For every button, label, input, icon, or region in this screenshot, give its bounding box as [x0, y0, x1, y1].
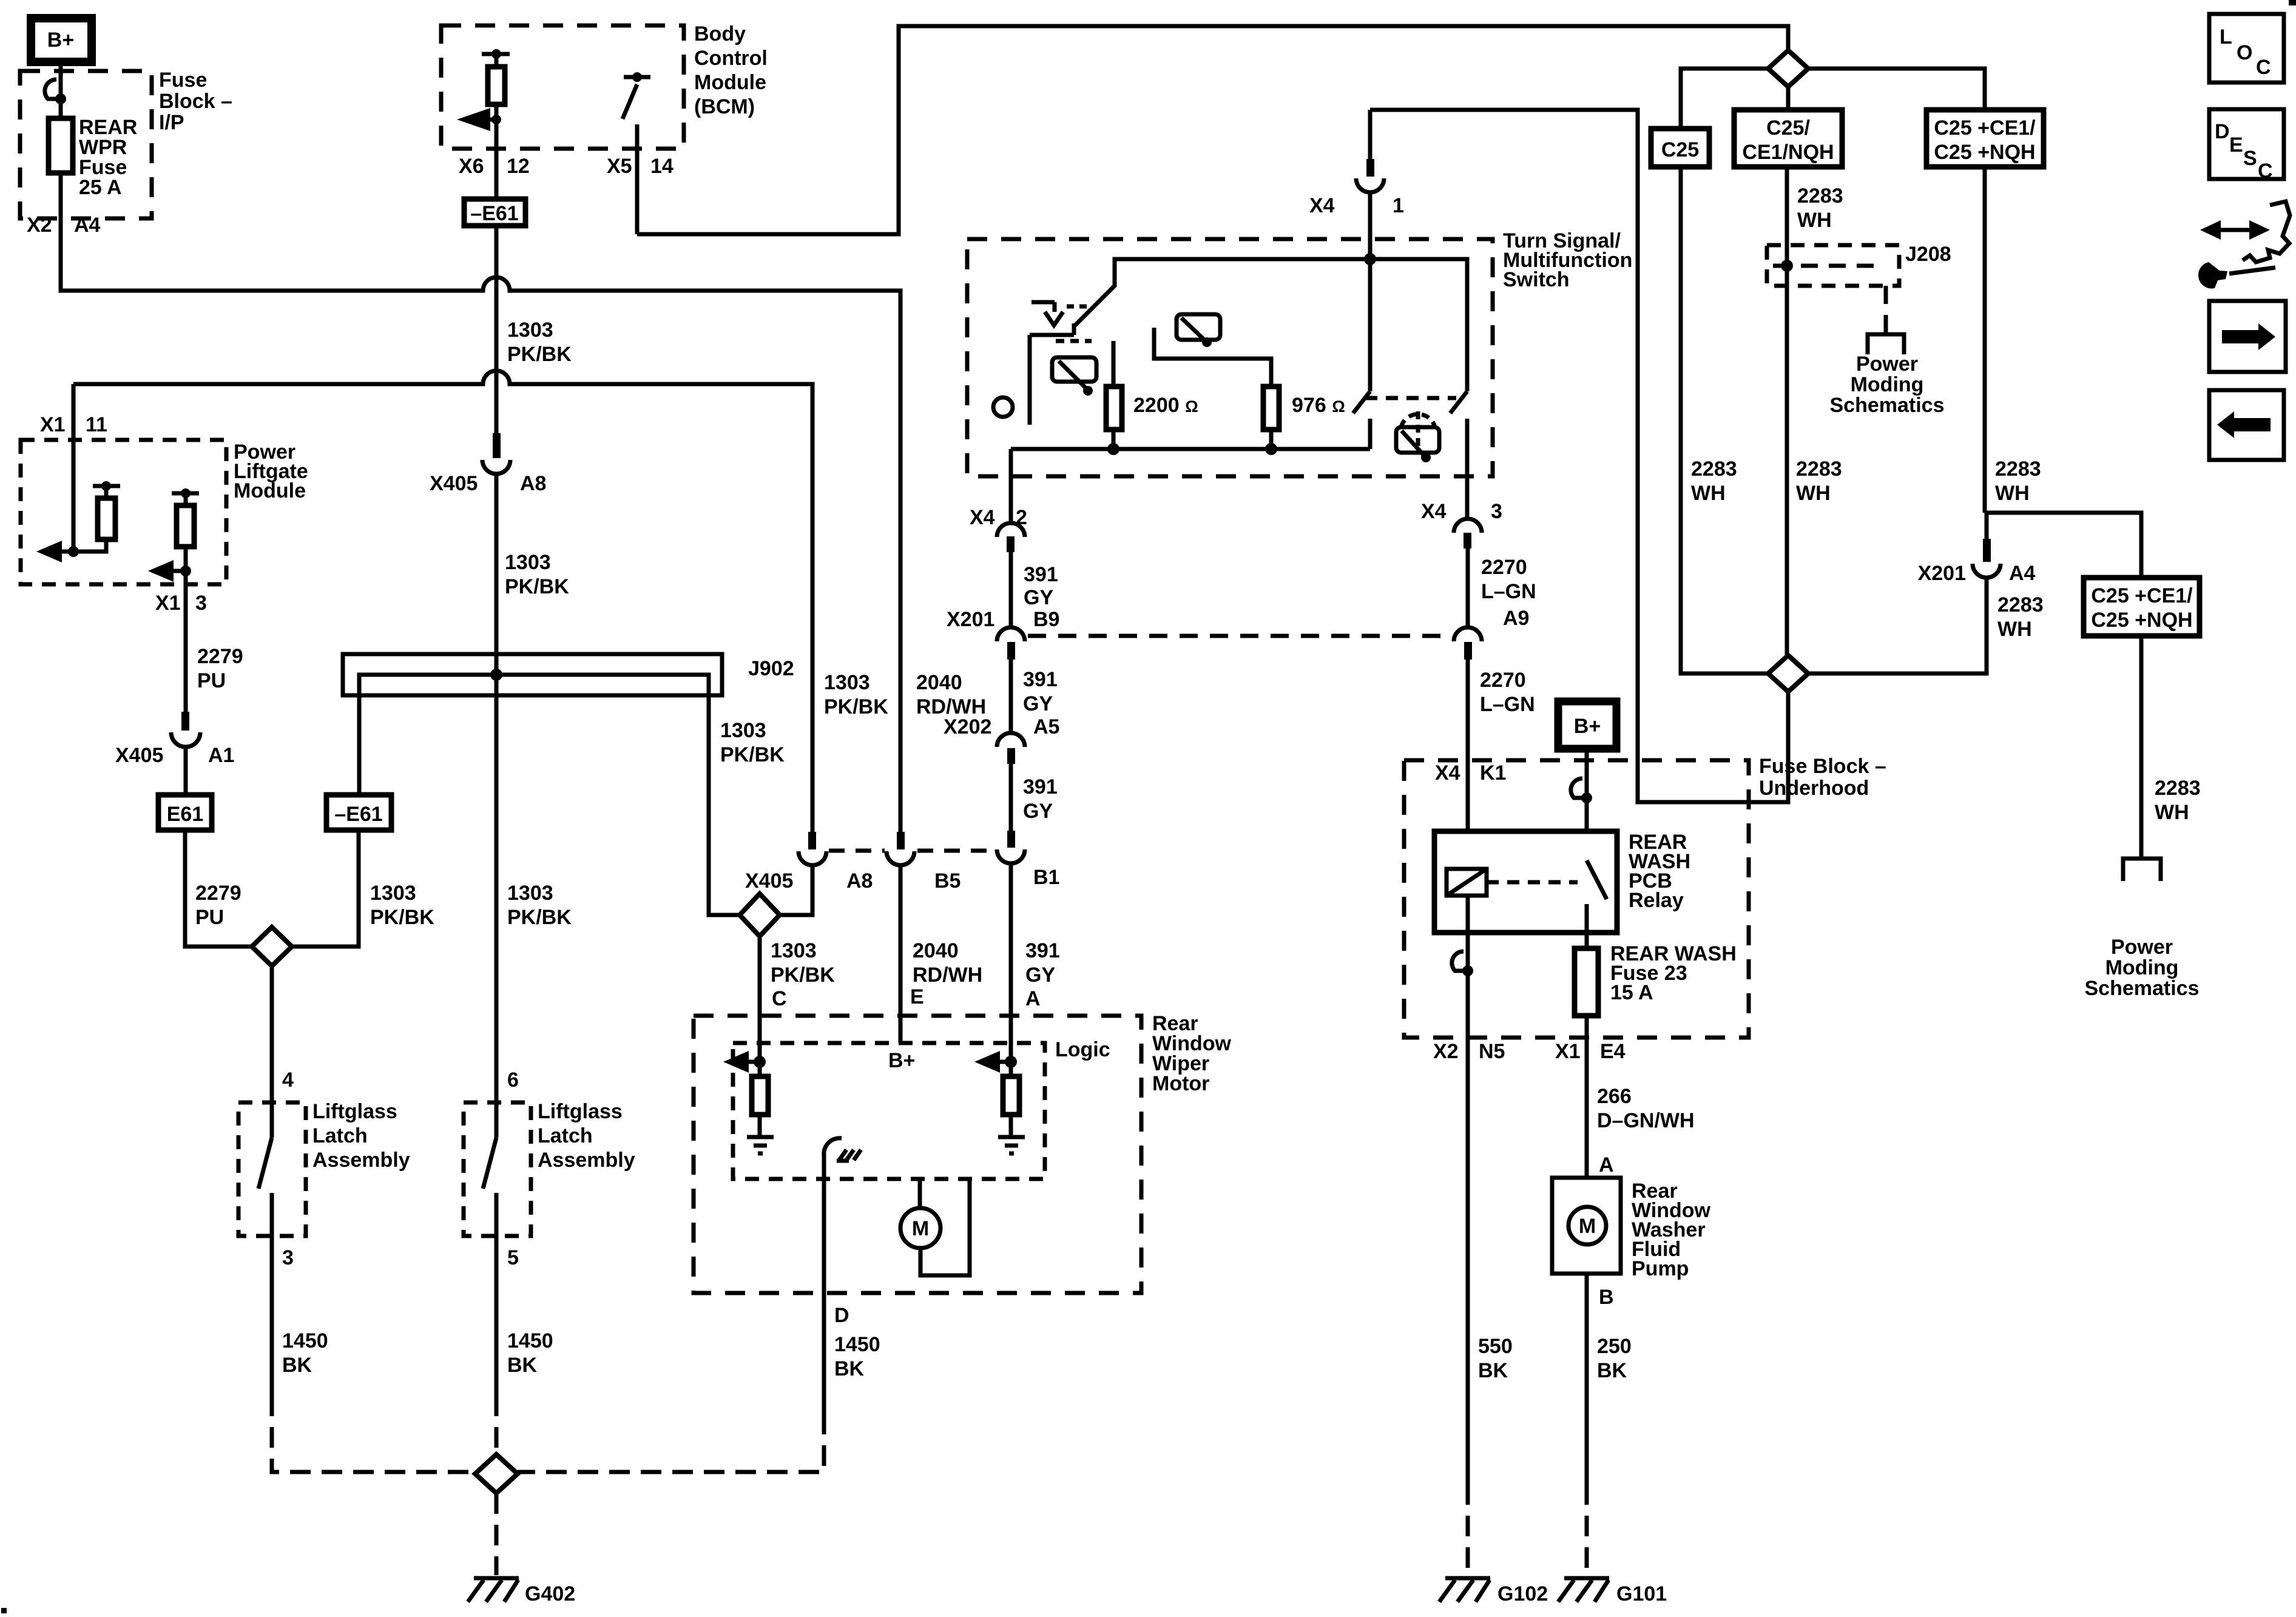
- svg-text:X201: X201: [947, 608, 994, 631]
- C input arrow: [723, 1051, 766, 1073]
- svg-text:2279: 2279: [195, 882, 241, 905]
- svg-text:1303: 1303: [507, 882, 553, 905]
- svg-text:E4: E4: [1600, 1040, 1626, 1063]
- label 2283 WH: [1797, 184, 1843, 232]
- connector X405 A8 (second): [799, 832, 826, 865]
- svg-text:PK/BK: PK/BK: [505, 575, 569, 598]
- svg-text:X201: X201: [1918, 562, 1966, 585]
- svg-text:Schematics: Schematics: [2085, 977, 2200, 1000]
- pin labels X1 11: [40, 413, 107, 436]
- svg-text:Liftglass: Liftglass: [312, 1100, 397, 1123]
- junction dot trunk-J902: [490, 669, 502, 681]
- svg-text:M: M: [1579, 1215, 1596, 1238]
- label Power Moding Schematics: [1830, 353, 1945, 417]
- A pull resistor: [1003, 1062, 1019, 1136]
- svg-text:1303: 1303: [505, 551, 551, 574]
- svg-text:11: 11: [86, 413, 107, 436]
- splice diamond (E61 junction): [252, 927, 292, 966]
- svg-text:X1: X1: [40, 413, 66, 436]
- wire N5 out of fuse block: [1466, 971, 1470, 1484]
- svg-text:2040: 2040: [916, 671, 962, 694]
- svg-text:BK: BK: [507, 1354, 538, 1377]
- svg-text:266: 266: [1597, 1085, 1632, 1108]
- pin labels X202 A5: [944, 715, 1059, 738]
- label 2283 WH (lower): [1796, 457, 1842, 505]
- svg-text:2279: 2279: [197, 645, 243, 668]
- resistor 2200 ohm: [1106, 341, 1122, 449]
- svg-text:X4: X4: [1435, 761, 1460, 785]
- connector X4 3: [1454, 519, 1482, 549]
- svg-text:WH: WH: [1691, 482, 1726, 505]
- splice diamond (wiper feed): [740, 894, 780, 936]
- C pull resistor: [752, 1062, 768, 1136]
- wire 1303 PK/BK from -E61 to splice diamond: [292, 830, 359, 947]
- connector X405 A1: [171, 712, 200, 747]
- svg-text:391: 391: [1023, 775, 1058, 798]
- dashed wire to ground diamond: [495, 1396, 499, 1454]
- right margin icon LOC: [2209, 14, 2284, 83]
- label 391 GY (A wire lower): [1025, 939, 1060, 987]
- svg-text:2: 2: [1016, 506, 1027, 529]
- svg-text:25 A: 25 A: [79, 176, 122, 199]
- Turn Signal/Multifunction Switch dashed box: [967, 239, 1493, 476]
- label 1450 BK: [834, 1333, 880, 1380]
- svg-text:X5: X5: [607, 155, 632, 178]
- svg-text:PK/BK: PK/BK: [771, 964, 835, 987]
- wire from BCM X5-14 to top right: [637, 26, 1788, 234]
- svg-text:A8: A8: [520, 472, 546, 495]
- liftgate module arrow 1: [36, 541, 79, 562]
- mechanical link dashed: [1365, 396, 1456, 400]
- Power Liftgate Module dashed box: [21, 440, 226, 584]
- pin labels X1 3: [155, 592, 207, 615]
- svg-text:2283: 2283: [1691, 457, 1737, 481]
- pin labels X1 E4: [1555, 1040, 1626, 1063]
- svg-text:Switch: Switch: [1503, 268, 1570, 291]
- wire down to liftglass latch 1: [270, 966, 274, 1138]
- svg-text:C25/: C25/: [1766, 116, 1810, 140]
- ground (A resistor): [998, 1137, 1025, 1153]
- svg-text:1450: 1450: [507, 1329, 553, 1352]
- svg-text:550: 550: [1478, 1335, 1513, 1358]
- X201 connector plane dashed: [1028, 634, 1451, 638]
- wire E (B5) down to wiper motor: [899, 865, 903, 1043]
- svg-text:Underhood: Underhood: [1759, 777, 1869, 800]
- svg-text:3: 3: [282, 1246, 294, 1269]
- svg-text:PK/BK: PK/BK: [824, 695, 888, 718]
- wire 1303 horizontal A with hop over trunk: [61, 277, 900, 832]
- svg-text:A5: A5: [1033, 715, 1059, 738]
- right margin icon arrow right: [2209, 301, 2286, 372]
- svg-text:PK/BK: PK/BK: [720, 743, 785, 766]
- wire B+ to fuse: [59, 66, 63, 118]
- ground G102: [1439, 1578, 1490, 1602]
- bent pin terminal N5: [1452, 951, 1473, 976]
- resistor 976 ohm: [1154, 328, 1279, 449]
- svg-text:X405: X405: [430, 472, 478, 495]
- A input arrow: [974, 1051, 1017, 1073]
- pump motor M: [1568, 1207, 1606, 1244]
- svg-text:A4: A4: [2009, 562, 2036, 585]
- trunk wire continues to J902: [495, 476, 499, 675]
- svg-text:PU: PU: [195, 906, 224, 929]
- switch blade 2: [1450, 391, 1467, 413]
- dashed wire to G102: [1466, 1484, 1470, 1575]
- pin letters C E A: [772, 985, 1041, 1010]
- svg-text:X4: X4: [1309, 194, 1335, 217]
- label 1450 BK: [282, 1329, 328, 1377]
- svg-text:S: S: [2243, 147, 2257, 170]
- svg-text:B: B: [1599, 1286, 1614, 1309]
- Fuse Block - Underhood dashed box: [1404, 760, 1749, 1038]
- svg-text:2200 Ω: 2200 Ω: [1133, 394, 1198, 417]
- svg-text:WH: WH: [1995, 482, 2030, 505]
- svg-text:–E61: –E61: [334, 803, 382, 826]
- svg-text:J208: J208: [1905, 243, 1951, 266]
- svg-text:A: A: [1599, 1153, 1614, 1176]
- destination box C25 +CE1/C25 +NQH (second): [2084, 578, 2200, 636]
- connector X201 A4: [1973, 513, 2001, 578]
- pin labels X201 B9: [947, 608, 1059, 631]
- svg-text:E: E: [2229, 133, 2243, 157]
- svg-text:X2: X2: [1433, 1040, 1459, 1063]
- svg-text:Module: Module: [234, 479, 306, 502]
- svg-text:E61: E61: [167, 803, 204, 826]
- svg-text:PK/BK: PK/BK: [507, 343, 572, 366]
- svg-text:1303: 1303: [720, 719, 766, 742]
- BCM internal switch X5: [623, 72, 650, 234]
- svg-text:C25 +NQH: C25 +NQH: [2091, 609, 2192, 632]
- svg-text:X1: X1: [155, 592, 181, 615]
- wire 391 GY to X202: [1009, 660, 1013, 733]
- label Fuse Block - Underhood: [1759, 755, 1886, 800]
- label Body Control Module (BCM): [694, 22, 768, 118]
- svg-text:Pump: Pump: [1632, 1257, 1689, 1280]
- label Turn Signal/Multifunction Switch: [1503, 229, 1632, 291]
- svg-text:Control: Control: [694, 47, 768, 70]
- fuse REAR WPR 25A: [49, 118, 73, 173]
- liftgate module resistor 2: [172, 488, 199, 584]
- svg-text:O: O: [2237, 41, 2252, 64]
- liftgate module resistor 1: [73, 481, 120, 552]
- Rear Window Wiper Motor dashed box: [694, 1016, 1141, 1293]
- svg-text:GY: GY: [1025, 964, 1055, 987]
- svg-text:J902: J902: [748, 657, 794, 680]
- svg-text:L–GN: L–GN: [1480, 693, 1535, 716]
- svg-text:C25 +CE1/: C25 +CE1/: [1934, 116, 2036, 140]
- Rear Window Washer Fluid Pump box: [1552, 1178, 1621, 1274]
- svg-text:2040: 2040: [913, 939, 959, 962]
- svg-text:2283: 2283: [2155, 777, 2201, 800]
- label 250 BK: [1597, 1335, 1632, 1382]
- ground (C resistor): [747, 1137, 774, 1153]
- REAR WASH PCB Relay box: [1434, 831, 1617, 933]
- svg-text:K1: K1: [1480, 761, 1506, 785]
- svg-text:1450: 1450: [282, 1329, 328, 1352]
- off position circle: [993, 397, 1013, 417]
- junction dots on bottom bus: [1107, 443, 1119, 455]
- pin labels X201 A4: [1918, 562, 2036, 585]
- svg-text:CE1/NQH: CE1/NQH: [1742, 141, 1834, 164]
- wire fuse to pump: [1585, 1016, 1589, 1178]
- svg-text:–E61: –E61: [470, 202, 518, 225]
- label REAR WASH Fuse 23 15 A: [1610, 942, 1737, 1004]
- latch switch blade 2: [483, 1138, 496, 1189]
- label 391 GY: [1024, 563, 1058, 609]
- page period mark: [1, 1608, 7, 1613]
- svg-text:X2: X2: [27, 214, 52, 237]
- intermittent delay symbol: [1032, 302, 1092, 325]
- svg-text:15 A: 15 A: [1610, 981, 1653, 1004]
- svg-text:250: 250: [1597, 1335, 1632, 1358]
- wire B+ into fuse block: [1585, 749, 1589, 860]
- wire 391 GY to B1: [1009, 764, 1013, 831]
- connector X201 A9: [1454, 627, 1482, 660]
- label Liftglass Latch Assembly 2: [538, 1100, 635, 1172]
- svg-text:1303: 1303: [771, 939, 817, 962]
- label 1303 PK/BK (trunk): [507, 882, 572, 929]
- svg-text:A4: A4: [74, 214, 101, 237]
- wire diamond down to C25/CE1/NQH: [1786, 87, 1791, 110]
- trunk wire 1303 PK/BK from -E61 down to X405 connector: [495, 149, 499, 433]
- label Liftglass Latch Assembly: [312, 1100, 410, 1172]
- svg-text:391: 391: [1025, 939, 1060, 962]
- label 1303 PK/BK (J902 right leg): [720, 719, 785, 766]
- label Fuse Block - I/P: [159, 69, 232, 134]
- wire C down to wiper motor: [758, 936, 762, 1062]
- svg-text:3: 3: [195, 592, 207, 615]
- lower distribution diamond: [1768, 655, 1808, 692]
- svg-text:Body: Body: [694, 22, 746, 46]
- Body Control Module dashed box: [441, 25, 684, 149]
- svg-text:C25: C25: [1661, 138, 1699, 161]
- svg-text:D–GN/WH: D–GN/WH: [1597, 1109, 1695, 1132]
- wire A8 to splice diamond: [780, 865, 812, 915]
- ground symbol box -E61 (second): [326, 795, 391, 830]
- splice diamond G402 net: [475, 1454, 518, 1493]
- svg-text:Assembly: Assembly: [312, 1149, 410, 1172]
- svg-text:C: C: [2256, 56, 2271, 79]
- svg-text:X405: X405: [745, 869, 793, 893]
- svg-text:B5: B5: [934, 869, 961, 893]
- branch to second C25+CE1 box: [1985, 513, 2141, 578]
- BCM output arrow: [457, 108, 501, 131]
- svg-text:B+: B+: [888, 1049, 915, 1072]
- svg-text:PK/BK: PK/BK: [370, 906, 434, 929]
- wire below latch 2: [495, 1193, 499, 1396]
- svg-text:A1: A1: [208, 744, 234, 767]
- svg-text:RD/WH: RD/WH: [913, 964, 982, 987]
- svg-text:1450: 1450: [834, 1333, 880, 1356]
- svg-text:D: D: [834, 1304, 849, 1327]
- svg-text:Block –: Block –: [159, 90, 232, 113]
- label Rear Window Washer Fluid Pump: [1632, 1180, 1711, 1280]
- label 1303 PK/BK (A8 wire): [824, 671, 888, 718]
- svg-text:G101: G101: [1616, 1582, 1667, 1605]
- connector X405 A8 (in-line on trunk): [482, 433, 510, 474]
- switch blade 1 (to bottom bus): [1353, 259, 1370, 449]
- svg-text:2283: 2283: [1997, 593, 2044, 616]
- label 2283 WH: [1691, 457, 1737, 505]
- dashed wire latch1 to ground net: [272, 1396, 476, 1472]
- switch bottom bus: [1011, 447, 1370, 451]
- pin labels X5 14: [607, 155, 674, 178]
- svg-text:D: D: [2215, 120, 2230, 143]
- svg-text:Power: Power: [1856, 353, 1918, 376]
- svg-text:Relay: Relay: [1629, 889, 1684, 912]
- svg-text:GY: GY: [1023, 800, 1053, 823]
- svg-text:PK/BK: PK/BK: [507, 906, 572, 929]
- Logic dashed box: [733, 1043, 1045, 1179]
- switch common node: [1364, 253, 1376, 265]
- svg-text:1: 1: [1393, 194, 1404, 217]
- svg-text:2283: 2283: [1796, 457, 1842, 481]
- label 2283 WH: [1997, 593, 2044, 641]
- label 266 D-GN/WH: [1597, 1085, 1695, 1132]
- svg-text:GY: GY: [1024, 586, 1053, 609]
- pin labels X405 A8: [430, 472, 546, 495]
- label 550 BK: [1478, 1335, 1513, 1382]
- svg-text:WH: WH: [1997, 618, 2032, 641]
- wire 2279 PU down: [184, 584, 188, 713]
- label 1303 PK/BK: [505, 551, 569, 598]
- connector X201 B9: [997, 627, 1025, 660]
- label Rear Window Wiper Motor: [1152, 1012, 1232, 1095]
- svg-text:X6: X6: [459, 155, 484, 178]
- connector X4 2: [997, 523, 1025, 552]
- wire diamond to right branch: [1808, 69, 1985, 110]
- X405 connector plane dashed: [829, 849, 995, 853]
- label REAR WPR Fuse 25 A: [79, 116, 137, 199]
- svg-text:2270: 2270: [1481, 556, 1527, 579]
- connector X405 B5: [886, 832, 914, 865]
- pin labels X405 A8 B5 B1: [745, 866, 1059, 893]
- svg-text:2283: 2283: [1797, 184, 1843, 208]
- wire 391 GY to X201: [1009, 552, 1013, 627]
- svg-text:Fuse Block –: Fuse Block –: [1759, 755, 1886, 778]
- label 2283 WH: [1995, 457, 2041, 505]
- relay link dashed: [1487, 880, 1578, 885]
- fuse REAR WASH 23: [1575, 948, 1598, 1016]
- wire 2283 WH down to power moding: [2139, 636, 2144, 859]
- svg-text:(BCM): (BCM): [694, 95, 755, 118]
- svg-text:X4: X4: [1421, 500, 1447, 523]
- liftgate module arrow 2: [148, 560, 191, 582]
- svg-text:BK: BK: [1597, 1359, 1627, 1382]
- destination box C25: [1651, 129, 1709, 167]
- svg-text:Moding: Moding: [2105, 956, 2179, 979]
- B+ power symbol box (fuse block underhood): [1558, 701, 1616, 749]
- svg-text:Module: Module: [694, 71, 766, 94]
- svg-text:5: 5: [507, 1246, 519, 1269]
- svg-text:C25 +CE1/: C25 +CE1/: [2091, 584, 2193, 607]
- svg-text:L: L: [2220, 25, 2232, 49]
- svg-text:12: 12: [507, 155, 530, 178]
- ground G101: [1558, 1578, 1609, 1602]
- wire pump down: [1585, 1274, 1589, 1484]
- relay switch blade: [1587, 860, 1607, 948]
- right margin icon DESC: [2209, 109, 2284, 183]
- svg-text:Latch: Latch: [538, 1124, 593, 1147]
- J902 splice pack box: [343, 654, 722, 695]
- svg-text:1303: 1303: [370, 882, 416, 905]
- connector X4 1 (switch feed): [1356, 110, 1384, 259]
- BCM internal resistor (driver): [482, 49, 510, 149]
- svg-text:X4: X4: [970, 506, 995, 529]
- svg-text:L–GN: L–GN: [1481, 580, 1536, 603]
- dashed wire J208 to power moding: [1884, 286, 1888, 333]
- splice J208 dashed box: [1767, 245, 1899, 286]
- svg-text:Motor: Motor: [1152, 1072, 1209, 1095]
- svg-text:B1: B1: [1033, 866, 1059, 889]
- svg-text:Assembly: Assembly: [538, 1149, 635, 1172]
- svg-text:WH: WH: [2155, 801, 2189, 824]
- svg-text:Power: Power: [2111, 936, 2173, 959]
- wiper wash icon 1: [1052, 341, 1096, 396]
- switch arm to blade 2: [1370, 259, 1467, 391]
- pin labels X4 K1: [1435, 761, 1506, 785]
- off-page bracket power moding 2: [2123, 859, 2161, 881]
- svg-text:GY: GY: [1023, 692, 1053, 715]
- wiper motor M: [900, 1179, 970, 1275]
- svg-text:1303: 1303: [824, 671, 870, 694]
- pin labels X2 A4: [27, 214, 101, 237]
- label 391 GY: [1023, 668, 1058, 715]
- switch wiper arm (left): [1074, 259, 1370, 326]
- svg-text:A9: A9: [1503, 607, 1529, 630]
- ground G402: [468, 1578, 519, 1602]
- top distribution diamond: [1768, 50, 1808, 87]
- svg-text:Schematics: Schematics: [1830, 394, 1945, 417]
- bent pin terminal B+: [1571, 778, 1592, 803]
- Liftglass Latch Assembly 2 dashed box: [464, 1102, 531, 1236]
- wire D motor ground out: [822, 1153, 826, 1414]
- svg-text:976 Ω: 976 Ω: [1292, 394, 1345, 417]
- blade 2 contact down to X4-3: [1465, 419, 1470, 519]
- label 1450 BK: [507, 1329, 553, 1377]
- destination box C25/CE1/NQH: [1734, 110, 1842, 167]
- svg-text:X405: X405: [115, 744, 163, 767]
- wire to E61: [184, 746, 188, 795]
- svg-text:1303: 1303: [507, 319, 553, 342]
- wire X4-2 down from switch: [1009, 449, 1013, 523]
- svg-text:A8: A8: [846, 869, 873, 893]
- right margin icon service info: [2198, 201, 2290, 289]
- label 1303 PK/BK: [507, 319, 572, 366]
- wire below latch 1: [270, 1193, 274, 1396]
- right margin icon arrow left: [2209, 390, 2284, 460]
- bent-pin terminal in fuse block: [45, 79, 66, 104]
- svg-text:6: 6: [507, 1068, 519, 1092]
- wire relay coil down: [1466, 896, 1470, 971]
- wire C25+CE1 down right side: [1983, 167, 1987, 513]
- wire C25 down to lower diamond: [1681, 167, 1768, 673]
- label 2040 RD/WH (E wire lower): [913, 939, 982, 987]
- svg-text:BK: BK: [1478, 1359, 1508, 1382]
- wiper wash icon 3 (washer): [1396, 411, 1439, 462]
- svg-text:X1: X1: [1555, 1040, 1581, 1063]
- wiper wash icon 2: [1177, 314, 1220, 347]
- label 2283 WH: [2155, 777, 2201, 824]
- svg-text:BK: BK: [282, 1354, 312, 1377]
- svg-text:N5: N5: [1479, 1040, 1505, 1063]
- svg-text:BK: BK: [834, 1357, 865, 1380]
- wire 2270 L-GN to X201 A9: [1466, 549, 1470, 627]
- label 2279 PU: [195, 882, 241, 929]
- svg-text:WH: WH: [1796, 482, 1831, 505]
- svg-text:Fuse: Fuse: [159, 69, 207, 92]
- svg-text:14: 14: [650, 155, 674, 178]
